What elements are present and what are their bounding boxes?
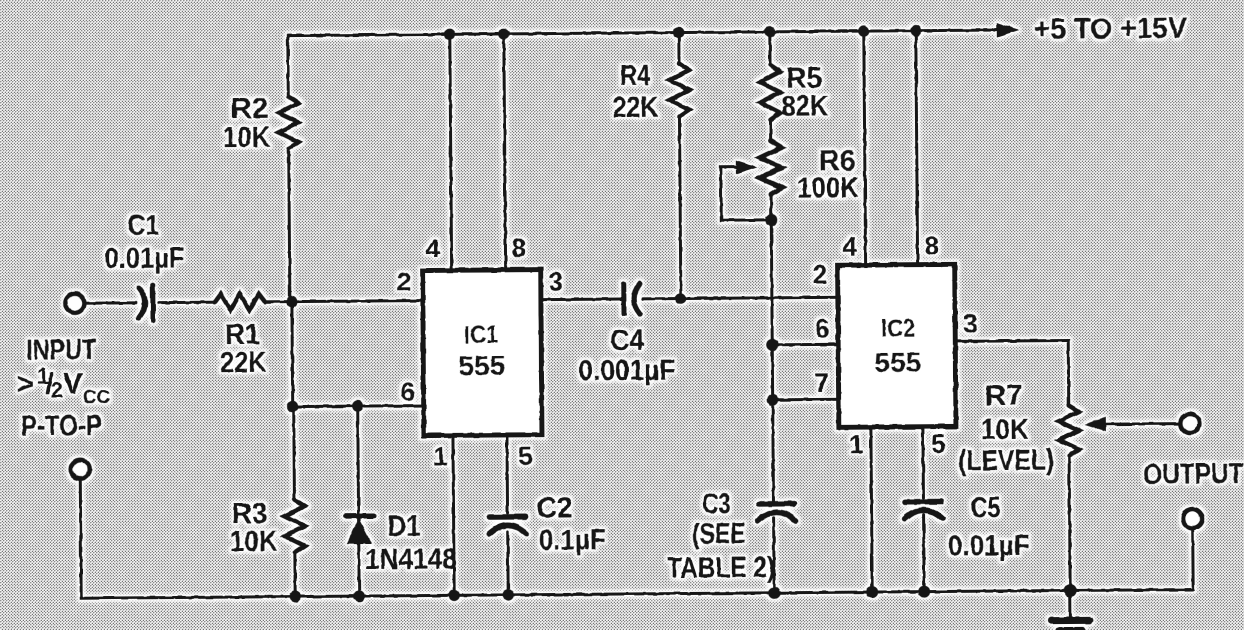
junction: IC1 pin4 at +V rail [444,29,455,40]
wire: R5/R6 column [770,32,774,593]
svg-text:(LEVEL): (LEVEL) [958,445,1054,478]
svg-text:0.01µF: 0.01µF [948,530,1030,563]
svg-text:2: 2 [397,267,412,297]
wire: IC1 pin8 [504,34,506,270]
wire: pin6 line IC1 [293,406,424,407]
svg-text:555: 555 [874,347,921,378]
svg-text:10K: 10K [222,122,270,154]
junction dot node A on signal line [286,296,297,307]
capacitor C1 0.01uF [139,288,145,318]
svg-text:C5: C5 [970,492,1000,524]
junction: R4 at +V rail [673,27,684,38]
wire: IC1 pin3 to C4 [541,298,621,302]
wire: IC1 pin5 to C2 and ground [507,435,508,595]
svg-text:3: 3 [549,266,564,296]
svg-text:IC2: IC2 [881,315,915,343]
resistor R3 10K [284,499,304,552]
svg-text:0.001µF: 0.001µF [578,355,675,388]
R7 wiper arrowhead [1084,417,1106,431]
svg-text:3: 3 [963,308,978,338]
svg-text:R4: R4 [620,60,650,92]
wire: +V top rail [288,30,997,36]
junction: C3 at ground rail [768,587,780,599]
svg-text:7: 7 [814,367,829,397]
svg-text:0.01µF: 0.01µF [104,242,184,275]
wire: D1 column [358,406,359,596]
wire: R1 to IC1 pin2 [265,301,423,302]
output terminal bottom [1183,509,1202,528]
junction dot IC2 pin6 [766,339,778,351]
wire: IC2 pin1 to ground [871,427,872,592]
svg-text:22K: 22K [220,347,266,379]
ground symbol [1051,617,1089,624]
svg-text:6: 6 [815,313,830,343]
wire: bottom ground rail [80,471,1193,599]
supply arrowhead [997,23,1020,37]
input terminal bottom [71,460,90,479]
wire: C4 to IC2 pin2 [643,297,838,299]
junction: R5 at +V rail [764,26,775,37]
svg-text:1N4148: 1N4148 [365,543,457,576]
svg-text:(SEE: (SEE [692,518,746,550]
svg-text:82K: 82K [781,90,828,122]
wire: input to C1 [85,301,136,304]
svg-text:R2: R2 [230,93,268,125]
input terminal top [65,294,84,313]
wire: node A column down to pin6 line [290,302,294,407]
IC2 555 box [838,264,956,427]
R6 wiper arrowhead [736,160,758,174]
junction dot D1 top [352,400,363,411]
svg-text:0.1µF: 0.1µF [539,524,606,557]
svg-text:+5 TO +15V: +5 TO +15V [1034,13,1188,46]
wire: IC2 pin4 [864,31,866,265]
junction: C5 at ground rail [918,586,930,598]
svg-text:22K: 22K [612,92,658,124]
wire: R4 column [679,33,681,299]
svg-text:10K: 10K [230,526,278,558]
potentiometer R6 100K [760,141,782,195]
junction: IC1 pin8 at +V rail [498,28,509,39]
wire: R3 column [294,407,295,597]
resistor R1 22K [215,294,265,310]
svg-text:1: 1 [433,441,448,471]
wire: IC2 pin5 to C5 and ground [923,427,924,592]
svg-text:100K: 100K [797,172,859,204]
svg-text:C2: C2 [536,492,572,524]
potentiometer R7 10K [1059,405,1079,455]
svg-text:C4: C4 [610,325,644,357]
wire: IC1 pin1 to ground rail [453,435,454,595]
wire: IC2 pin3 to R7 [955,340,1069,406]
junction dot IC2 pin7 [767,394,779,406]
junction: IC2 pin4 at +V rail [858,25,869,36]
junction: IC1 pin1 at ground rail [448,590,459,601]
svg-text:2: 2 [813,259,828,289]
svg-text:TABLE 2): TABLE 2) [667,552,775,585]
svg-text:8: 8 [924,231,939,261]
svg-text:8: 8 [511,233,526,263]
junction: D1 at ground rail [353,590,364,601]
wire: R2 column top [286,36,289,97]
wire: R7 bottom to ground rail [1069,455,1070,590]
wire: C1 to R1 [159,301,215,304]
svg-text:R7: R7 [985,380,1023,412]
svg-text:C3: C3 [702,488,730,520]
junction: IC2 pin1 at ground rail [866,586,878,598]
capacitor C2 0.1uF [490,514,526,520]
wire: IC2 pin8 [916,31,918,265]
junction dot R6 bottom [765,214,777,226]
svg-text:10K: 10K [981,414,1029,446]
wire: R7 wiper to output [1102,422,1180,426]
resistor R5 82K [760,65,780,120]
svg-text:4: 4 [842,231,857,261]
wire: ground stub [1069,590,1072,617]
svg-text:C1: C1 [127,210,159,242]
svg-text:6: 6 [400,377,415,407]
svg-text:1: 1 [849,429,864,459]
wire: R2 column bottom to signal line [289,149,290,302]
svg-text:OUTPUT: OUTPUT [1143,458,1243,491]
junction: R7/ground symbol at ground rail [1064,584,1077,597]
junction: IC2 pin8 at +V rail [910,25,921,36]
svg-text:5: 5 [518,441,533,471]
svg-text:IC1: IC1 [464,321,498,349]
svg-text:P-TO-P: P-TO-P [21,410,102,443]
junction: C2 at ground rail [502,589,513,600]
IC1 555 box [423,270,542,436]
svg-text:D1: D1 [388,511,421,543]
diode D1 1N4148 [346,513,374,518]
svg-text:4: 4 [425,233,440,263]
wire: IC1 pin4 [450,34,452,270]
svg-text:5: 5 [931,428,946,458]
svg-text:555: 555 [458,350,505,381]
svg-text:INPUT: INPUT [26,334,96,367]
junction dot pin6 node [287,401,298,412]
junction dot R4 bottom [675,293,686,304]
wire: IC2 pin7 line [773,398,839,402]
capacitor C5 0.01uF [905,499,941,505]
junction: R3 at ground rail [289,591,300,602]
resistor R4 22K [669,63,689,116]
resistor R2 10K [278,97,298,149]
capacitor C4 0.001uF [621,284,626,314]
wire: IC2 pin6 line [772,343,838,347]
wire: R6 wiper loop [721,167,771,220]
capacitor C3 [758,501,794,507]
output terminal top (level wiper) [1180,414,1199,433]
